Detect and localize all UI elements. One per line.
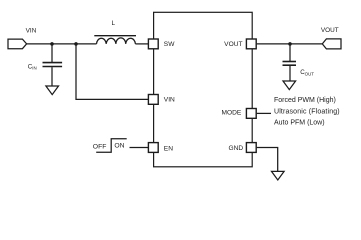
inductor L [94,36,136,44]
label L [112,20,116,27]
ground (CIN) [46,86,59,95]
capacitor COUT [283,44,297,81]
enable signal OFF/ON [93,139,127,152]
input tag VIN [8,39,27,49]
svg-text:COUT: COUT [300,69,314,76]
svg-text:Forced PWM (High): Forced PWM (High) [274,97,336,104]
pin VOUT [224,39,256,49]
svg-text:VIN: VIN [26,28,37,35]
wire enable to EN pin [130,147,149,149]
node junction dot 3 [288,42,292,46]
svg-text:VOUT: VOUT [224,41,242,48]
svg-text:MODE: MODE [222,110,242,117]
ground (COUT) [283,81,296,90]
wire MODE stub [257,112,271,114]
svg-text:L: L [112,20,116,27]
svg-text:VOUT: VOUT [321,27,339,34]
svg-text:Ultrasonic (Floating): Ultrasonic (Floating) [274,108,340,115]
svg-text:CIN: CIN [28,63,37,70]
wire VIN rail to VIN pin [76,44,149,100]
node junction dot 2 [74,42,78,46]
svg-text:SW: SW [164,41,175,48]
net label VOUT [321,27,339,34]
svg-text:EN: EN [164,145,173,152]
wire VOUT rail [257,43,323,45]
IC U1 body [154,12,253,167]
output tag VOUT [322,39,341,49]
capacitor CIN [43,44,63,86]
svg-text:Auto PFM (Low): Auto PFM (Low) [274,119,325,126]
pin SW [148,39,175,49]
ground (GND pin) [272,171,285,180]
wire VIN rail [27,43,97,45]
label COUT [300,69,314,76]
pin VIN [148,95,175,105]
net label VIN [26,28,37,35]
label CIN [28,63,37,70]
svg-text:GND: GND [229,145,244,152]
pin MODE [222,109,257,119]
wire GND pin to ground [257,148,278,172]
node junction dot 1 [50,42,54,46]
svg-text:OFF: OFF [93,143,107,150]
svg-text:ON: ON [114,143,124,150]
pin GND [229,143,257,153]
wire inductor to SW [135,43,148,45]
mode annotation text [274,97,340,126]
svg-text:VIN: VIN [164,96,175,103]
pin EN [148,143,173,153]
